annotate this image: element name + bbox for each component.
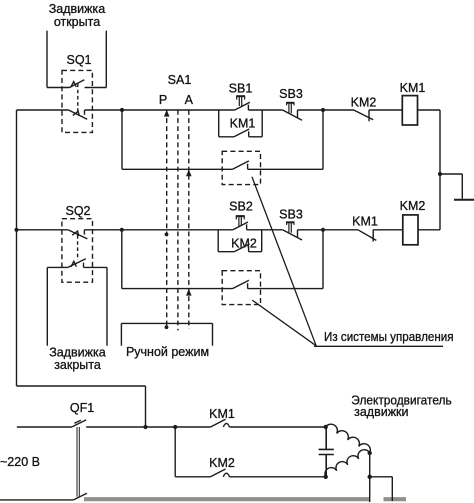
svg-text:KM1: KM1	[230, 117, 256, 131]
svg-text:KM1: KM1	[209, 407, 235, 421]
remote contact (row 2)	[222, 161, 260, 169]
pushbutton SB3 label (rung 1)	[279, 87, 303, 101]
pushbutton SB2 label	[229, 200, 253, 214]
SA1 position line A (dashed)	[188, 110, 190, 329]
pushbutton SB3 contact (NC, rung 3)	[283, 230, 302, 240]
node power feed / control bus	[143, 425, 147, 429]
svg-text:Из системы управления: Из системы управления	[324, 330, 454, 344]
pushbutton SB3 contact (NC, rung 1)	[283, 110, 302, 120]
node rung1 / W2 riser	[120, 108, 124, 112]
svg-text:SB2: SB2	[229, 200, 253, 214]
SQ1 mechanical link (dashed)	[77, 84, 79, 113]
label "Из системы управления"	[324, 330, 454, 344]
label ~220 V	[0, 455, 40, 469]
SA1 P dot below bracket	[165, 325, 169, 329]
node KM2 branch tee	[173, 425, 177, 429]
SQ2 upper contact actuator triangle	[72, 231, 79, 236]
label valve-open "Задвижка открыта"	[49, 2, 106, 29]
SA1 A arrow on wire 4	[186, 289, 192, 296]
KM2 branch riser	[175, 427, 210, 477]
KM1 main contact label	[209, 407, 235, 421]
pushbutton SB3 actuator (rung 1)	[286, 103, 294, 113]
coil KM1 label	[400, 81, 426, 95]
label valve-closed "Задвижка закрыта"	[49, 346, 106, 373]
SA1 A arrow on wire 2	[186, 170, 192, 177]
KM2 self-hold contact branch	[218, 230, 262, 252]
rung 3 wire	[17, 229, 441, 231]
pushbutton SB1 contact (NO)	[235, 102, 250, 110]
svg-text:SQ2: SQ2	[65, 204, 90, 218]
node rung3 / W4 riser	[120, 228, 124, 232]
KM2 interlock contact (NC, rung 1)	[354, 110, 374, 121]
cam bracket (valve open)	[47, 31, 106, 88]
breaker QF1 upper pole	[72, 420, 86, 427]
node rung3 / left bus	[14, 228, 18, 232]
SQ2 mechanical link (dashed)	[77, 235, 79, 260]
left control bus	[17, 110, 146, 427]
right bus vertical	[439, 110, 441, 230]
motor winding upper	[326, 424, 371, 453]
SQ2 lower contact blade	[68, 259, 86, 268]
KM1 interlock contact (NC, rung 3)	[358, 230, 376, 242]
motor capacitor	[319, 427, 334, 477]
cam bracket (valve closed)	[47, 263, 107, 346]
label "Ручной режим"	[126, 345, 209, 359]
pushbutton SB2 contact (NO)	[233, 222, 248, 230]
SA1 position label P	[159, 93, 167, 107]
node right bus / terminal branch	[438, 172, 442, 176]
svg-text:A: A	[185, 93, 194, 107]
limit switch SQ1 label	[66, 53, 91, 67]
svg-text:открыта: открыта	[54, 15, 100, 29]
svg-text:~220 В: ~220 В	[0, 455, 40, 469]
power wire N (bottom, black part)	[0, 499, 74, 501]
pointer line from row-4 box	[252, 300, 316, 346]
KM1 self-hold contact branch	[219, 110, 263, 137]
KM2 main contact label	[209, 456, 235, 470]
coil KM1	[402, 96, 417, 125]
svg-text:KM2: KM2	[400, 199, 426, 213]
motor label	[351, 394, 451, 419]
svg-text:P: P	[159, 93, 167, 107]
motor winding lower	[325, 450, 370, 477]
svg-text:SB1: SB1	[229, 82, 253, 96]
pushbutton SB1 label	[229, 82, 253, 96]
KM1 main contact	[211, 419, 230, 427]
SQ2 lower contact actuator triangle	[71, 261, 77, 267]
SA1 P arrow on rung 1	[164, 110, 170, 117]
SA1 shaft line (dashed)	[177, 110, 179, 330]
SA1 position line P (dashed)	[166, 110, 168, 326]
motor terminal stub wire	[370, 477, 393, 501]
svg-text:QF1: QF1	[70, 401, 94, 415]
terminal bar (control supply)	[454, 199, 474, 201]
SA1 P dot on rung 3	[165, 233, 169, 237]
motor right drop wire	[369, 453, 371, 502]
svg-text:SA1: SA1	[168, 73, 192, 87]
svg-text:закрыта: закрыта	[54, 358, 101, 372]
pushbutton SB3 actuator (rung 3)	[286, 222, 294, 232]
KM2 self-hold contact (NO)	[234, 244, 249, 252]
KM2 self-hold label	[231, 237, 257, 251]
node rung1 / W2 return riser	[321, 108, 325, 112]
svg-text:задвижки: задвижки	[354, 405, 408, 419]
SQ1 upper contact actuator triangle	[71, 82, 77, 88]
svg-text:KM1: KM1	[352, 215, 378, 229]
remote contact box (row 2, dashed)	[222, 151, 260, 184]
pushbutton SB1 actuator	[236, 96, 245, 106]
KM2 rung wire to motor	[230, 476, 326, 478]
KM2 interlock label (rung 1)	[351, 96, 377, 110]
SQ1 lower contact actuator triangle	[73, 111, 80, 116]
power wire N (grey continuation)	[84, 497, 370, 501]
limit switch SQ2 label	[65, 204, 90, 218]
SQ2 upper contact (NC) on rung 3	[68, 230, 88, 239]
node right drop / terminal stub	[368, 475, 372, 479]
breaker QF1 lower pole	[74, 493, 87, 500]
wire W2 (auto circuit, row 2)	[122, 110, 323, 169]
motor node top	[324, 425, 328, 429]
SA1 position label A	[185, 93, 194, 107]
node rung3 / W4 return riser	[321, 228, 325, 232]
svg-text:KM2: KM2	[231, 237, 257, 251]
svg-text:KM1: KM1	[400, 81, 426, 95]
KM1 self-hold contact (NO)	[234, 129, 249, 137]
svg-text:Ручной режим: Ручной режим	[126, 345, 209, 359]
limit switch SQ1 dashed box	[62, 70, 92, 132]
power wire L (top)	[17, 426, 326, 428]
manual-mode bracket	[121, 323, 212, 345]
coil KM2	[403, 215, 418, 245]
pointer line from row-2 box	[252, 177, 316, 346]
KM2 main contact	[211, 469, 230, 477]
limit switch SQ2 dashed box	[62, 219, 93, 283]
svg-text:KM2: KM2	[209, 456, 235, 470]
mode switch SA1 label	[168, 73, 192, 87]
svg-text:SB3: SB3	[279, 208, 303, 222]
svg-text:Задвижка: Задвижка	[49, 2, 106, 16]
rung 1 wire	[17, 109, 441, 111]
pushbutton SB2 actuator	[236, 216, 245, 226]
remote contact (row 4)	[222, 280, 260, 288]
svg-text:SQ1: SQ1	[66, 53, 91, 67]
wire W4 (auto circuit, row 4)	[122, 230, 323, 289]
KM1 interlock label (rung 3)	[352, 215, 378, 229]
remote contact box (row 4, dashed)	[222, 271, 260, 305]
svg-text:KM2: KM2	[351, 96, 377, 110]
motor node right	[368, 451, 372, 455]
KM1 self-hold label	[230, 117, 256, 131]
underline of control-system label	[314, 345, 443, 347]
breaker QF1 label	[70, 401, 94, 415]
motor terminal bar (grey)	[384, 497, 407, 501]
terminal branch wire	[440, 174, 462, 199]
coil KM2 label	[400, 199, 426, 213]
pushbutton SB3 label (rung 3)	[279, 208, 303, 222]
svg-text:SB3: SB3	[279, 87, 303, 101]
SQ1 upper contact blade	[70, 80, 85, 88]
motor node bottom	[324, 475, 328, 479]
SQ1 lower contact (NC) on rung 1	[69, 110, 88, 119]
breaker QF1 linkage (double line)	[77, 427, 79, 497]
